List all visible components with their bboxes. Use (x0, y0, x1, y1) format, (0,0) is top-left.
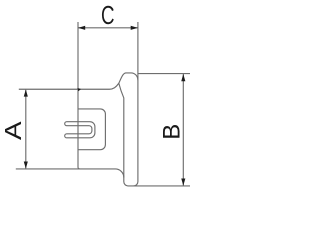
arrowhead B down (181, 178, 185, 185)
dimension line B (182, 74, 184, 186)
foot bottom edge with A bottom extension line, fillet into groove left wall (16, 169, 124, 178)
dimension line A (25, 90, 27, 169)
fork hairpin outline (65, 122, 95, 138)
stem left edge fillet and straight edge down to groove bottom (119, 83, 191, 186)
arrowhead C right (131, 26, 138, 30)
arrowhead A up (24, 89, 28, 96)
arrowhead C left (78, 26, 85, 30)
svg-text:C: C (101, 0, 115, 30)
arrowhead B up (181, 74, 185, 81)
arrowhead A down (24, 161, 28, 168)
clip housing rounded rectangle (78, 109, 105, 150)
left face edge / C left extension line with bottom corner (78, 22, 80, 169)
dimension line C (78, 27, 138, 29)
ledge edge + ogee rise into head, with A top extension line (19, 73, 138, 89)
svg-text:A: A (1, 121, 26, 140)
block top edge with B top extension line (138, 73, 191, 75)
body block left edge / C right extension line, with bottom fillet turning left (134, 22, 138, 186)
junction tick at ledge crossing (77, 88, 81, 91)
svg-text:B: B (158, 124, 185, 140)
